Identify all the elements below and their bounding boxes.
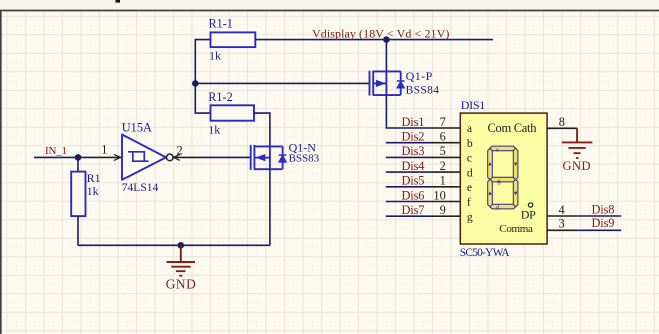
wire junction to R1 top <box>77 157 79 171</box>
U15A output bubble <box>167 154 174 161</box>
inverter U15A triangle <box>122 135 166 180</box>
svg-text:Dis6: Dis6 <box>402 188 425 202</box>
svg-text:Dis9: Dis9 <box>592 216 615 230</box>
svg-text:BSS83: BSS83 <box>289 152 320 164</box>
U15A hysteresis glyph <box>128 152 149 161</box>
segment arrow b <box>514 163 517 166</box>
svg-text:Dis1: Dis1 <box>402 115 425 129</box>
wire tee to Q1-P gate <box>195 82 369 84</box>
wire net Dis6 <box>386 201 431 203</box>
svg-text:g: g <box>467 210 473 223</box>
svg-text:DP: DP <box>521 208 536 222</box>
wire R1 bottom to ground rail <box>77 216 79 245</box>
svg-text:Vdisplay (18V < Vd < 21V): Vdisplay (18V < Vd < 21V) <box>312 26 449 40</box>
pin 1 of U15A <box>93 156 122 158</box>
wire net IN_1 <box>34 156 93 158</box>
svg-text:5: 5 <box>440 144 446 158</box>
wire U15A output to Q1-N gate <box>202 156 250 158</box>
svg-text:74LS14: 74LS14 <box>122 182 159 194</box>
wire Q1-P source to pin a <box>386 95 430 128</box>
junction IN_1/R1 <box>75 154 82 161</box>
svg-text:DIS1: DIS1 <box>461 98 485 112</box>
segment f <box>488 148 493 179</box>
pin 9 of DIS1 <box>431 215 461 217</box>
pin 4 of DIS1 <box>547 215 577 217</box>
svg-text:IN_1: IN_1 <box>45 145 67 157</box>
svg-text:8: 8 <box>559 115 565 129</box>
svg-text:1: 1 <box>440 174 446 188</box>
7-seg display DIS1 body <box>460 113 547 244</box>
pin 1 of DIS1 <box>431 186 461 188</box>
wire net Dis4 <box>386 171 431 173</box>
wire net Dis8 <box>577 215 621 217</box>
svg-text:7: 7 <box>440 115 446 129</box>
segment arrow c <box>514 192 517 195</box>
svg-text:Comma: Comma <box>499 223 533 235</box>
transistor Q1-N <box>251 145 287 170</box>
wire net Dis7 <box>386 215 431 217</box>
svg-text:2: 2 <box>440 159 446 173</box>
wire net Dis9 <box>577 229 621 231</box>
wire R1-2 right to Q1-N drain <box>254 113 270 146</box>
wire ground rail <box>78 244 270 246</box>
svg-text:10: 10 <box>433 188 445 202</box>
pin 2 of DIS1 <box>431 171 461 173</box>
svg-text:f: f <box>467 196 471 209</box>
svg-text:GND: GND <box>563 159 592 173</box>
junction ground rail/GND <box>178 242 185 249</box>
svg-text:Q1-P: Q1-P <box>406 69 433 83</box>
svg-text:9: 9 <box>440 203 446 217</box>
svg-text:Dis7: Dis7 <box>402 203 425 217</box>
pin 8 of DIS1 <box>547 127 577 129</box>
svg-text:R1-1: R1-1 <box>209 17 233 31</box>
svg-text:2: 2 <box>177 143 183 157</box>
svg-text:4: 4 <box>559 203 565 217</box>
pin 6 of DIS1 <box>431 142 461 144</box>
wire net Vdisplay <box>255 39 493 41</box>
resistor R1 <box>71 172 85 217</box>
svg-text:1k: 1k <box>87 184 99 198</box>
svg-text:6: 6 <box>440 130 446 144</box>
wire net Dis2 <box>386 142 431 144</box>
svg-text:3: 3 <box>559 217 565 231</box>
segment arrow e <box>488 191 491 194</box>
segment arrow f <box>488 162 491 165</box>
svg-text:Com Cath: Com Cath <box>488 121 538 135</box>
svg-text:b: b <box>467 137 473 150</box>
svg-text:Dis3: Dis3 <box>402 144 425 158</box>
svg-text:BSS84: BSS84 <box>406 84 440 96</box>
svg-text:U15A: U15A <box>122 121 152 135</box>
segment c <box>513 179 518 206</box>
svg-text:a: a <box>467 122 472 135</box>
wire net Dis3 <box>386 156 431 158</box>
segment b <box>513 148 518 179</box>
segment g <box>490 177 516 182</box>
svg-text:a: a <box>496 146 499 153</box>
svg-text:e: e <box>467 181 472 194</box>
svg-text:Dis8: Dis8 <box>592 203 615 217</box>
segment e <box>488 179 493 206</box>
svg-text:Dis5: Dis5 <box>402 174 425 188</box>
svg-text:GND: GND <box>166 276 197 291</box>
ground GND (right) <box>562 128 593 158</box>
pin 2 of U15A <box>173 156 202 158</box>
segment d <box>490 204 516 209</box>
wire net Dis5 <box>386 186 431 188</box>
svg-text:1: 1 <box>101 142 107 156</box>
svg-text:d: d <box>467 166 473 179</box>
segment a <box>490 146 516 151</box>
svg-text:R1-2: R1-2 <box>208 90 232 104</box>
pin 3 of DIS1 <box>547 229 577 231</box>
junction Vdisplay/Q1-P <box>383 36 390 43</box>
svg-text:1k: 1k <box>208 122 220 136</box>
pin 10 of DIS1 <box>431 201 461 203</box>
pin 1 arrow <box>114 154 121 160</box>
ground GND (left) <box>167 245 196 275</box>
svg-text:c: c <box>467 152 472 165</box>
svg-text:R1: R1 <box>87 171 101 185</box>
resistor R1-1 <box>211 32 256 47</box>
resistor R1-2 <box>211 105 255 120</box>
svg-text:Dis4: Dis4 <box>402 159 425 173</box>
wire R1-1 left to R1-2 left <box>195 40 210 114</box>
svg-text:Dis2: Dis2 <box>402 130 425 144</box>
svg-text:SC50-YWA: SC50-YWA <box>460 247 511 259</box>
pin 2 arrow <box>173 154 179 160</box>
junction gate tee <box>192 80 199 87</box>
svg-text:1k: 1k <box>209 49 221 63</box>
wire Q1-N source down <box>269 169 271 245</box>
transistor Q1-P <box>370 71 405 96</box>
pin 5 of DIS1 <box>431 156 461 158</box>
wire Vdisplay to Q1-P drain <box>385 40 387 72</box>
pin 7 of DIS1 <box>431 127 461 129</box>
DP dot circle <box>528 203 532 207</box>
